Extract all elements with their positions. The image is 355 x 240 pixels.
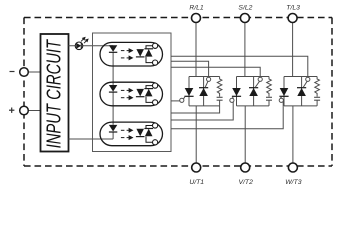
optocoupler OC1 LED: [109, 45, 117, 52]
svg-text:W/T3: W/T3: [285, 179, 301, 186]
terminal S/L2: [240, 14, 249, 23]
svg-text:T/L3: T/L3: [286, 5, 300, 12]
wire branch 1 bottom rail: [189, 105, 220, 107]
wire gate bus B1 (to branch 3 upper gate): [171, 56, 308, 77]
svg-text:R/L1: R/L1: [189, 5, 204, 12]
resistor R2 (snubber): [267, 77, 272, 97]
wire branch 3 bottom rail: [284, 105, 317, 107]
wire opto LED chain 1-2: [112, 52, 114, 85]
optocoupler OC2 body: [100, 82, 163, 106]
enclosure dashed border (SSR body outline): [24, 18, 332, 167]
thyristor Q3 gate: [232, 97, 235, 100]
optocoupler OC1 pin bottom: [153, 60, 158, 65]
thyristor Q1: [188, 77, 190, 106]
wire branch 3 top rail: [284, 76, 317, 78]
optocoupler OC2 pin bottom: [153, 100, 158, 105]
terminal U/T1: [192, 163, 201, 172]
wire input circuit to opto chain (through indicator LED): [69, 45, 114, 47]
optocoupler OC3 pin bottom: [153, 140, 158, 145]
svg-text:INPUT CIRCUIT: INPUT CIRCUIT: [42, 39, 65, 148]
wire gate bus D2 (to branch 2 lower gate): [171, 101, 233, 120]
optocoupler OC2 emission arrows: [121, 89, 132, 100]
wire gate bus B3 (to branch 2 upper gate): [171, 67, 260, 77]
terminal input plus: [20, 106, 29, 115]
wire opto chain return to input circuit: [69, 138, 114, 140]
svg-text:V/T2: V/T2: [239, 179, 254, 186]
thyristor Q5: [283, 77, 285, 106]
input circuit block: [41, 34, 69, 152]
thyristor Q6: [301, 77, 303, 106]
plus polarity mark: [9, 108, 14, 113]
optocoupler OC3 photo-triac: [136, 129, 144, 137]
wire input(-) to input circuit: [24, 71, 41, 73]
optocoupler OC1 photo-triac: [136, 49, 144, 57]
terminal V/T2: [241, 163, 250, 172]
optocoupler OC2 output bracket: [146, 86, 152, 103]
resistor R1 (snubber): [217, 77, 222, 97]
thyristor Q2: [203, 77, 205, 106]
optocoupler OC2 photo-triac: [136, 89, 144, 97]
terminal input minus: [20, 68, 29, 77]
capacitor C2 (snubber): [266, 96, 272, 98]
optocoupler OC1 pin top: [153, 43, 158, 48]
optocoupler OC2 LED: [109, 85, 117, 92]
wire phase S/L2 drop: [244, 23, 246, 77]
thyristor Q3: [236, 77, 238, 106]
terminal T/L3: [288, 14, 297, 23]
thyristor Q5 gate: [280, 97, 283, 100]
thyristor Q4: [253, 77, 255, 106]
indicator LED: [75, 42, 83, 50]
resistor R3 (snubber): [315, 77, 320, 97]
svg-text:U/T1: U/T1: [189, 179, 204, 186]
optocoupler OC3 LED: [109, 125, 117, 132]
minus polarity mark: [10, 71, 15, 73]
svg-text:S/L2: S/L2: [238, 5, 252, 12]
indicator LED light arrows: [81, 37, 88, 43]
wire output V/T2 drop: [244, 106, 246, 163]
terminal R/L1: [192, 14, 201, 23]
thyristor Q2 gate: [205, 81, 208, 87]
capacitor C3 (snubber): [314, 96, 320, 98]
opto module box: [93, 33, 172, 152]
wire output U/T1 drop: [195, 106, 197, 163]
thyristor Q1 gate: [183, 97, 185, 100]
optocoupler OC2 pin top: [153, 83, 158, 88]
optocoupler OC3 emission arrows: [121, 129, 132, 140]
optocoupler OC1 body: [100, 42, 163, 66]
wire opto LED chain 2-3: [112, 92, 114, 125]
thyristor Q6 gate: [303, 81, 307, 87]
capacitor C1 (snubber): [217, 96, 223, 98]
wire gate bus D3 (to branch 3 lower gate): [171, 101, 283, 129]
wire input(+) to input circuit: [24, 110, 41, 112]
wire gate bus D1 (to branch 1 snubber foot): [171, 106, 220, 113]
thyristor Q4 gate: [255, 81, 260, 87]
optocoupler OC1 output bracket: [146, 46, 152, 63]
optocoupler OC3 output bracket: [146, 126, 152, 143]
wire gate bus D0 (to branch 1 lower gate): [171, 100, 180, 102]
wire branch 1 top rail: [189, 76, 220, 78]
wire branch 2 top rail: [237, 76, 270, 78]
terminal W/T3: [288, 163, 297, 172]
optocoupler OC3 body: [100, 122, 163, 146]
optocoupler OC3 pin top: [153, 123, 158, 128]
wire phase T/L3 drop: [292, 23, 294, 77]
wire gate bus B2 (to branch 1 upper gate): [171, 61, 209, 77]
wire output W/T3 drop: [292, 106, 294, 163]
wire opto LED chain 3 to return: [112, 132, 114, 139]
wire phase R/L1 drop: [195, 23, 197, 77]
optocoupler OC1 emission arrows: [121, 49, 132, 60]
wire branch 2 bottom rail: [237, 105, 270, 107]
